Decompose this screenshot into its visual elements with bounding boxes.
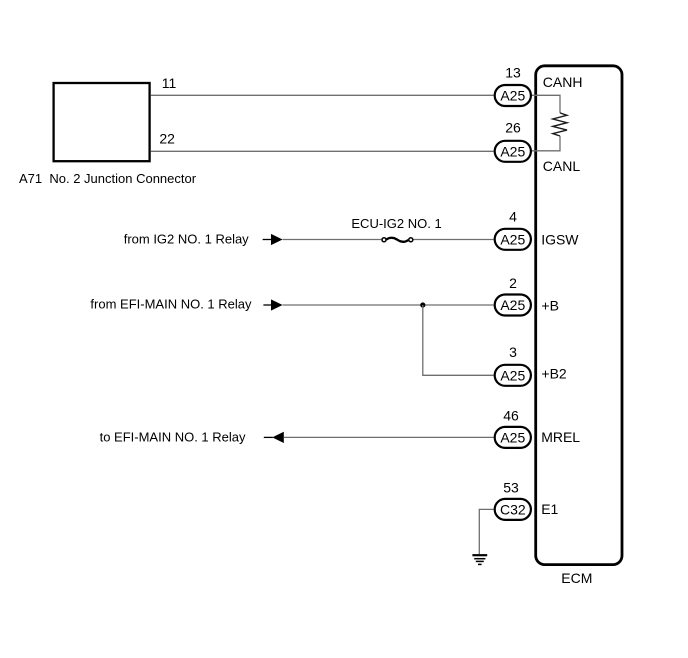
- svg-text:4: 4: [509, 208, 517, 224]
- svg-text:CANL: CANL: [543, 158, 581, 174]
- connector A25 pin 3: [495, 365, 531, 386]
- svg-text:+B2: +B2: [541, 366, 567, 382]
- svg-text:A25: A25: [500, 429, 525, 445]
- wire 11: [151, 94, 494, 96]
- svg-text:A71 No. 2 Junction Connector: A71 No. 2 Junction Connector: [19, 171, 197, 186]
- svg-text:46: 46: [503, 408, 519, 424]
- svg-text:3: 3: [509, 344, 517, 360]
- wire IGSW left segment: [283, 239, 382, 241]
- wire E1 to ground: [479, 509, 493, 554]
- svg-text:53: 53: [503, 480, 519, 496]
- svg-text:+B: +B: [541, 298, 559, 314]
- wire IGSW right segment: [414, 239, 494, 241]
- svg-text:26: 26: [505, 120, 521, 136]
- svg-text:ECU-IG2 NO. 1: ECU-IG2 NO. 1: [351, 216, 441, 231]
- arrow from EFI-MAIN relay: [263, 299, 282, 310]
- wire resistor to CANL: [532, 136, 561, 151]
- wire branch down to +B2: [423, 305, 494, 375]
- connector C32 pin 53: [495, 499, 531, 520]
- svg-text:from IG2 NO. 1 Relay: from IG2 NO. 1 Relay: [124, 232, 249, 247]
- svg-text:A25: A25: [500, 367, 525, 383]
- svg-text:MREL: MREL: [541, 429, 580, 445]
- connector A25 pin 26: [495, 141, 531, 162]
- wire CANH to resistor: [532, 95, 561, 113]
- svg-text:A25: A25: [500, 88, 525, 104]
- arrow to EFI-MAIN relay (points left): [264, 432, 284, 443]
- ECM box: [536, 66, 622, 565]
- svg-text:2: 2: [509, 275, 517, 291]
- svg-text:from EFI-MAIN NO. 1 Relay: from EFI-MAIN NO. 1 Relay: [90, 297, 252, 312]
- svg-text:CANH: CANH: [543, 74, 583, 90]
- svg-text:ECM: ECM: [561, 570, 592, 586]
- resistor (CAN bus terminator): [553, 113, 567, 136]
- svg-text:22: 22: [159, 130, 175, 146]
- fuse ECU-IG2 NO. 1: [382, 238, 413, 242]
- junction dot: [420, 302, 425, 307]
- svg-text:11: 11: [162, 75, 177, 91]
- connector A25 pin 13: [495, 85, 531, 106]
- svg-text:E1: E1: [541, 501, 558, 517]
- arrow from IG2 relay: [263, 234, 283, 245]
- connector A25 pin 4: [495, 229, 531, 250]
- junction connector A71 box: [54, 83, 150, 161]
- connector A25 pin 46: [495, 427, 531, 448]
- wire MREL: [284, 436, 494, 438]
- svg-text:A25: A25: [500, 231, 525, 247]
- ground: [472, 555, 487, 564]
- svg-text:to EFI-MAIN NO. 1 Relay: to EFI-MAIN NO. 1 Relay: [100, 429, 246, 444]
- svg-text:C32: C32: [500, 501, 526, 517]
- connector A25 pin 2: [495, 295, 531, 316]
- svg-text:A25: A25: [500, 143, 525, 159]
- svg-text:IGSW: IGSW: [541, 232, 579, 248]
- wire 22: [151, 150, 494, 152]
- svg-text:13: 13: [505, 65, 521, 81]
- wire +B: [283, 304, 494, 306]
- svg-text:A25: A25: [500, 297, 525, 313]
